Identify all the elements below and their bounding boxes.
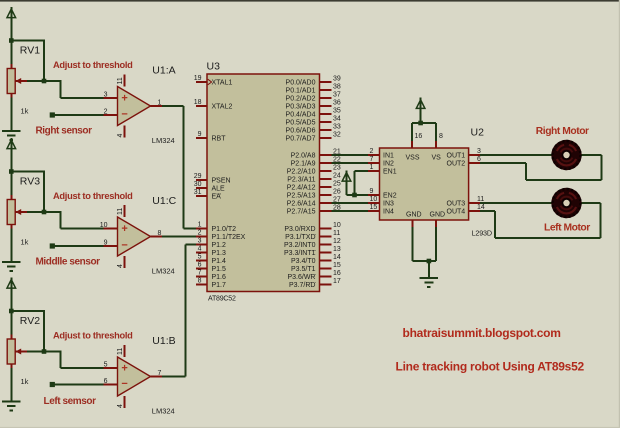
label U1:C: [152, 195, 176, 207]
wire pot to ground section 1: [10, 98, 12, 132]
svg-text:P0.1/AD1: P0.1/AD1: [286, 88, 316, 95]
pin 9 RBT of U3: [196, 131, 226, 142]
svg-text:5: 5: [198, 254, 202, 261]
svg-text:P2.6/A14: P2.6/A14: [287, 201, 316, 208]
svg-text:1k: 1k: [21, 377, 29, 386]
svg-text:LM324: LM324: [152, 407, 175, 416]
pin 35 P0.4/AD4 of U3: [286, 108, 341, 119]
svg-text:2: 2: [198, 230, 202, 237]
svg-text:6: 6: [198, 262, 202, 269]
svg-text:P0.0/AD0: P0.0/AD0: [286, 80, 316, 87]
pin 23 P2.2/A10 of U3: [287, 165, 341, 176]
pin 24 P2.3/A11 of U3: [287, 173, 341, 184]
svg-text:PSEN: PSEN: [212, 178, 231, 185]
resistor RV3 (potentiometer 1k): [7, 172, 44, 230]
svg-text:17: 17: [333, 278, 341, 285]
svg-text:4: 4: [117, 134, 124, 138]
node sensor input terminal section 2: [50, 243, 55, 248]
svg-text:P3.3/INT1: P3.3/INT1: [284, 250, 316, 257]
label U1:A: [152, 65, 175, 77]
svg-text:15: 15: [333, 262, 341, 269]
pin 21 P2.0/A8 of U3: [291, 149, 341, 160]
svg-text:1k: 1k: [21, 238, 29, 247]
pin 12 P3.2/INT0 of U3: [284, 238, 341, 249]
driver U2 L293D body: [380, 148, 469, 220]
resistor RV2 (potentiometer 1k): [7, 311, 44, 369]
pin 30 ALE of U3: [194, 181, 225, 192]
label RV1: [20, 45, 40, 57]
svg-text:1: 1: [198, 222, 202, 229]
svg-text:GND: GND: [406, 211, 422, 218]
pin 1 P1.0/T2 of U3: [196, 222, 236, 233]
svg-text:LM324: LM324: [152, 267, 175, 276]
svg-text:7: 7: [370, 156, 374, 163]
microcontroller U3 AT89C52 body: [207, 74, 320, 292]
pin numbers of U1:C: [100, 208, 162, 268]
svg-text:30: 30: [194, 181, 202, 188]
pin 22 P2.1/A9 of U3: [291, 157, 341, 168]
svg-text:Adjust to threshold: Adjust to threshold: [53, 60, 133, 70]
svg-text:37: 37: [333, 92, 341, 99]
motor Left Motor: [551, 188, 581, 218]
svg-text:10: 10: [333, 222, 341, 229]
svg-text:15: 15: [370, 204, 378, 211]
svg-text:16: 16: [333, 270, 341, 277]
pin 11 OUT3 of U2: [447, 196, 485, 207]
wire U1:A output to P1.0: [162, 106, 196, 229]
svg-text:P0.4/AD4: P0.4/AD4: [286, 112, 316, 119]
wire power to VS pin: [421, 123, 436, 141]
svg-text:P1.4: P1.4: [212, 258, 227, 265]
svg-text:P3.5/T1: P3.5/T1: [291, 266, 316, 273]
label Right sensor: [36, 126, 93, 137]
svg-text:23: 23: [333, 165, 341, 172]
label U1:B: [152, 335, 175, 347]
svg-text:P3.6/WR: P3.6/WR: [287, 274, 315, 281]
svg-text:P1.0/T2: P1.0/T2: [212, 226, 237, 233]
label LM324 of U1:B: [152, 407, 175, 416]
svg-text:P2.2/A10: P2.2/A10: [287, 169, 316, 176]
svg-text:9: 9: [370, 188, 374, 195]
label Left Motor: [544, 223, 590, 234]
svg-text:18: 18: [194, 99, 202, 106]
label Adjust to threshold section 3: [53, 330, 133, 340]
svg-text:7: 7: [158, 370, 162, 377]
label AT89C52: [208, 296, 236, 303]
svg-text:RV3: RV3: [20, 176, 40, 188]
svg-text:Middlle sensor: Middlle sensor: [36, 257, 101, 268]
svg-text:XTAL2: XTAL2: [212, 104, 233, 111]
svg-text:11: 11: [333, 230, 340, 237]
pin 25 P2.4/A12 of U3: [287, 181, 341, 192]
label LM324 of U1:A: [152, 136, 175, 145]
pin 4 P1.3 of U3: [196, 246, 226, 257]
svg-text:VS: VS: [432, 155, 442, 162]
pin 8 P1.7 of U3: [196, 278, 226, 289]
wire sensor terminal to op-amp section 3: [52, 384, 117, 386]
pin 19 XTAL1 of U3: [194, 75, 233, 86]
svg-text:P3.0/RXD: P3.0/RXD: [284, 226, 315, 233]
wire P2.0 to IN1: [332, 154, 369, 156]
svg-text:1: 1: [158, 100, 162, 107]
pin 29 PSEN of U3: [194, 173, 231, 184]
wire wiper feed section 1: [44, 80, 118, 98]
node wiper junction RV2: [42, 349, 47, 354]
svg-text:39: 39: [333, 76, 341, 83]
svg-text:5: 5: [104, 362, 108, 369]
wire pot to ground section 2: [10, 229, 12, 263]
motor Right Motor: [551, 140, 581, 170]
wire sensor terminal to op-amp section 1: [52, 114, 117, 116]
svg-text:P2.4/A12: P2.4/A12: [287, 185, 316, 192]
svg-text:P1.6: P1.6: [212, 274, 227, 281]
pin GND left of U2: [406, 211, 422, 228]
wire OUT4 to left motor (return): [480, 203, 601, 238]
svg-text:P0.3/AD3: P0.3/AD3: [286, 104, 316, 111]
svg-text:U2: U2: [471, 127, 485, 139]
label Adjust to threshold section 2: [53, 191, 133, 201]
ground section 2: [2, 262, 20, 271]
label Middlle sensor: [36, 257, 101, 268]
svg-text:4: 4: [198, 246, 202, 253]
node sensor input terminal section 1: [50, 112, 55, 117]
label Right Motor: [536, 126, 589, 137]
svg-text:EN1: EN1: [383, 169, 397, 176]
svg-text:2: 2: [370, 148, 374, 155]
svg-text:9: 9: [198, 131, 202, 138]
svg-text:IN4: IN4: [383, 209, 394, 216]
pin 39 P0.0/AD0 of U3: [286, 76, 341, 87]
svg-text:IN1: IN1: [383, 153, 394, 160]
node power junction above U2: [418, 121, 423, 126]
pin 31 EA of U3: [194, 189, 221, 200]
ground below U2: [420, 278, 438, 287]
svg-text:bhatraisummit.blogspot.com: bhatraisummit.blogspot.com: [403, 326, 561, 340]
wire junction to corner section 3: [11, 310, 44, 351]
svg-text:U1:B: U1:B: [152, 335, 175, 347]
svg-text:1: 1: [370, 164, 374, 171]
pin 5 P1.4 of U3: [196, 254, 226, 265]
svg-text:IN2: IN2: [383, 161, 394, 168]
node EN junction: [352, 193, 357, 198]
svg-text:−: −: [121, 240, 127, 252]
svg-text:ALE: ALE: [212, 186, 226, 193]
svg-text:Right sensor: Right sensor: [36, 126, 93, 137]
svg-text:14: 14: [333, 254, 341, 261]
power symbol VCC section 3: [7, 277, 16, 311]
svg-text:−: −: [121, 109, 127, 121]
wire P2.1 to IN2: [332, 162, 369, 164]
svg-text:Right Motor: Right Motor: [536, 126, 589, 137]
value label 1k of RV2: [21, 377, 29, 386]
pin 37 P0.2/AD2 of U3: [286, 92, 341, 103]
svg-text:33: 33: [333, 124, 341, 131]
power symbol VCC section 1: [7, 7, 16, 41]
value label 1k of RV3: [21, 238, 29, 247]
pin 15 P3.5/T1 of U3: [291, 262, 341, 273]
node junction top of RV1: [9, 38, 14, 43]
label RV2: [20, 315, 40, 327]
pin 38 P0.1/AD1 of U3: [286, 84, 341, 95]
svg-text:LM324: LM324: [152, 136, 175, 145]
resistor RV1 (potentiometer 1k): [7, 41, 44, 99]
svg-text:OUT4: OUT4: [447, 209, 466, 216]
node ground junction below U2: [427, 259, 432, 264]
svg-text:Left Motor: Left Motor: [544, 223, 590, 234]
pin 6 P1.5 of U3: [196, 262, 226, 273]
svg-text:P2.5/A13: P2.5/A13: [287, 193, 316, 200]
svg-text:3: 3: [104, 92, 108, 99]
svg-text:19: 19: [194, 75, 202, 82]
svg-text:OUT3: OUT3: [447, 201, 466, 208]
label LM324 of U1:C: [152, 267, 175, 276]
svg-text:38: 38: [333, 84, 341, 91]
wire power to VSS pin: [412, 123, 421, 141]
svg-text:P0.2/AD2: P0.2/AD2: [286, 96, 316, 103]
svg-text:P1.5: P1.5: [212, 266, 227, 273]
node wiper junction RV1: [42, 79, 47, 84]
svg-text:1k: 1k: [21, 107, 29, 116]
pin 14 OUT4 of U2: [447, 204, 485, 215]
pin 17 P3.7/RD of U3: [289, 278, 341, 289]
pin 11 P3.1/TXD of U3: [285, 230, 340, 241]
power symbol VCC for EN1/EN2: [342, 170, 351, 195]
svg-text:P3.4/T0: P3.4/T0: [291, 258, 316, 265]
label Left semsor: [44, 396, 97, 407]
pin 3 OUT1 of U2: [447, 148, 481, 159]
svg-text:P1.7: P1.7: [212, 282, 227, 289]
pin 28 P2.7/A15 of U3: [287, 205, 341, 216]
wire OUT1 to right motor: [480, 154, 552, 156]
svg-text:+: +: [121, 363, 127, 375]
svg-text:16: 16: [415, 133, 423, 140]
label U2: [471, 127, 485, 139]
svg-text:U1:C: U1:C: [152, 195, 176, 207]
pin 3 P1.2 of U3: [196, 238, 226, 249]
svg-text:8: 8: [198, 278, 202, 285]
svg-text:13: 13: [333, 246, 341, 253]
svg-text:P3.1/TXD: P3.1/TXD: [285, 234, 315, 241]
label bhatraisummit.blogspot.com: [403, 326, 561, 340]
svg-text:VSS: VSS: [406, 155, 420, 162]
power symbol VCC above U2: [416, 98, 425, 123]
pin 2 IN1 of U2: [368, 148, 394, 159]
svg-text:Adjust to threshold: Adjust to threshold: [53, 191, 133, 201]
pin 15 IN4 of U2: [368, 204, 394, 215]
pin numbers of U1:A: [104, 77, 162, 137]
svg-text:2: 2: [104, 109, 108, 116]
pin 32 P0.7/AD7 of U3: [286, 132, 341, 143]
svg-text:9: 9: [104, 240, 108, 247]
op-amp U1:B (LM324): [104, 345, 163, 408]
svg-text:7: 7: [198, 270, 202, 277]
svg-text:U3: U3: [207, 61, 221, 73]
svg-text:EA: EA: [212, 194, 222, 201]
svg-text:P0.7/AD7: P0.7/AD7: [286, 136, 316, 143]
svg-text:29: 29: [194, 173, 202, 180]
label Line tracking robot Using AT89s52: [396, 360, 585, 374]
svg-text:8: 8: [158, 230, 162, 237]
pin 7 P1.6 of U3: [196, 270, 226, 281]
svg-text:12: 12: [333, 238, 341, 245]
pin 10 P3.0/RXD of U3: [284, 222, 341, 233]
pin 10 IN3 of U2: [368, 196, 394, 207]
svg-text:P1.1/T2EX: P1.1/T2EX: [212, 234, 246, 241]
pin 27 P2.6/A14 of U3: [287, 197, 341, 208]
ground section 3: [2, 402, 20, 411]
svg-text:11: 11: [117, 348, 124, 355]
svg-text:OUT2: OUT2: [447, 161, 466, 168]
pin 2 P1.1/T2EX of U3: [196, 230, 246, 241]
svg-text:35: 35: [333, 108, 341, 115]
svg-text:Left semsor: Left semsor: [44, 396, 97, 407]
wire pot to ground section 3: [10, 368, 12, 402]
svg-text:P2.3/A11: P2.3/A11: [287, 177, 315, 184]
svg-text:25: 25: [333, 181, 341, 188]
svg-text:P3.2/INT0: P3.2/INT0: [284, 242, 316, 249]
svg-text:8: 8: [439, 133, 443, 140]
wire wiper feed section 2: [44, 211, 118, 228]
node sensor input terminal section 3: [50, 382, 55, 387]
svg-text:32: 32: [333, 132, 341, 139]
value label 1k of RV1: [21, 107, 29, 116]
label U3: [207, 61, 221, 73]
wire wiper feed section 3: [44, 351, 118, 368]
pin 33 P0.6/AD6 of U3: [286, 124, 341, 135]
pin numbers of U1:B: [104, 348, 162, 408]
label L293D: [472, 229, 492, 238]
wire U1:B output to P1.2: [162, 245, 196, 377]
power symbol VCC section 2: [7, 138, 16, 172]
svg-text:XTAL1: XTAL1: [212, 80, 233, 87]
pin 1 EN1 of U2: [368, 164, 397, 175]
svg-text:EN2: EN2: [383, 193, 397, 200]
svg-text:P2.1/A9: P2.1/A9: [291, 161, 316, 168]
svg-text:RV2: RV2: [20, 315, 40, 327]
op-amp U1:C (LM324): [104, 205, 163, 268]
wire junction to EN1: [355, 171, 369, 195]
svg-text:3: 3: [198, 238, 202, 245]
svg-text:GND: GND: [430, 211, 446, 218]
svg-text:L293D: L293D: [472, 229, 492, 238]
svg-text:10: 10: [100, 222, 108, 229]
pin 18 XTAL2 of U3: [194, 99, 233, 110]
ground section 1: [2, 131, 20, 140]
svg-text:36: 36: [333, 100, 341, 107]
node junction top of RV2: [9, 309, 14, 314]
pin 14 P3.4/T0 of U3: [291, 254, 341, 265]
wire OUT2 to right motor (return): [480, 155, 602, 180]
pin 7 IN2 of U2: [368, 156, 394, 167]
svg-text:P1.2: P1.2: [212, 242, 227, 249]
svg-text:34: 34: [333, 116, 341, 123]
svg-text:U1:A: U1:A: [152, 65, 175, 77]
pin 16 VSS of U2: [406, 133, 423, 162]
svg-text:P0.6/AD6: P0.6/AD6: [286, 128, 316, 135]
svg-text:Adjust to threshold: Adjust to threshold: [53, 330, 133, 340]
svg-text:11: 11: [117, 208, 124, 215]
svg-text:+: +: [121, 223, 127, 235]
pin 8 VS of U2: [432, 133, 444, 162]
pin 36 P0.3/AD3 of U3: [286, 100, 341, 111]
svg-text:4: 4: [117, 264, 124, 268]
wire OUT3 to left motor: [480, 202, 552, 204]
pin 6 OUT2 of U2: [447, 156, 481, 167]
pin 26 P2.5/A13 of U3: [287, 189, 341, 200]
wire P2.6 to IN3: [332, 202, 369, 204]
wire junction to EN2: [355, 194, 369, 196]
wire junction to corner section 2: [11, 171, 44, 212]
node wiper junction RV3: [42, 210, 47, 215]
svg-text:P2.0/A8: P2.0/A8: [291, 153, 316, 160]
svg-text:10: 10: [370, 196, 378, 203]
label RV3: [20, 176, 40, 188]
svg-text:AT89C52: AT89C52: [208, 296, 236, 303]
svg-text:P3.7/RD: P3.7/RD: [289, 282, 315, 289]
pin 16 P3.6/WR of U3: [287, 270, 340, 281]
svg-text:P2.7/A15: P2.7/A15: [287, 209, 316, 216]
pin 13 P3.3/INT1 of U3: [284, 246, 341, 257]
svg-text:IN3: IN3: [383, 201, 394, 208]
svg-text:OUT1: OUT1: [447, 153, 466, 160]
svg-text:+: +: [121, 93, 127, 105]
svg-text:6: 6: [104, 378, 108, 385]
pin GND right of U2: [430, 211, 446, 228]
pin 9 EN2 of U2: [368, 188, 397, 199]
wire U1:C output to P1.1: [162, 236, 196, 238]
svg-text:Line tracking robot Using AT89: Line tracking robot Using AT89s52: [396, 360, 585, 374]
wire EN power to junction: [347, 194, 355, 196]
wire sensor terminal to op-amp section 2: [52, 245, 117, 247]
svg-text:4: 4: [117, 404, 124, 408]
svg-text:RBT: RBT: [212, 136, 227, 143]
wire P2.7 to IN4: [332, 210, 369, 212]
pin 34 P0.5/AD5 of U3: [286, 116, 341, 127]
svg-text:P0.5/AD5: P0.5/AD5: [286, 120, 316, 127]
svg-text:RV1: RV1: [20, 45, 40, 57]
svg-text:P1.3: P1.3: [212, 250, 227, 257]
op-amp U1:A (LM324): [104, 75, 163, 138]
svg-text:11: 11: [117, 77, 124, 84]
wire GND pins to ground: [412, 227, 436, 278]
svg-text:24: 24: [333, 173, 341, 180]
svg-text:26: 26: [333, 189, 341, 196]
svg-text:31: 31: [194, 189, 202, 196]
svg-text:−: −: [121, 378, 127, 390]
node junction top of RV3: [9, 169, 14, 174]
label Adjust to threshold section 1: [53, 60, 133, 70]
wire junction to corner section 1: [11, 40, 44, 81]
